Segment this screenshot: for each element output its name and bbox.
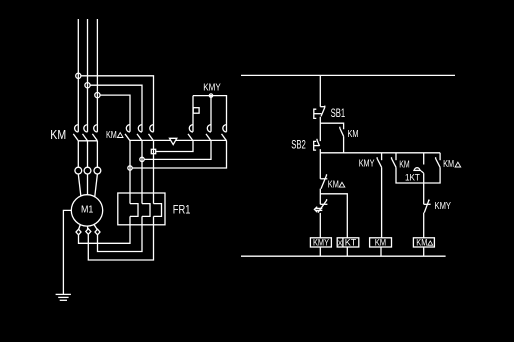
svg-text:KM: KM [106,130,117,141]
coil KM box [370,238,392,247]
contact KMdelta (NO) [436,157,441,167]
ground wire [63,210,71,294]
wire subrail to KMdelta contact [439,153,441,160]
thermal relay FR1 box [118,193,165,225]
motor terminal circle V1 [84,167,91,174]
contactor KMdelta pole 2 [137,125,142,141]
contactor KMdelta pole 1 [125,125,130,141]
contactor KM pole 3 [92,125,97,141]
coil KMdelta box [413,238,434,247]
wire KMdelta NC to KT branch node [319,189,321,205]
contact KMdelta interlock (NC) [320,174,327,189]
wire subrail to 1KT contact [423,153,425,165]
label KMdelta NO [443,159,461,170]
motor terminal circle W1 [94,167,101,174]
terminal diamond V2 [86,229,91,235]
contactor KMY pole 2 [206,125,211,141]
wire KM coil to rail [380,247,382,256]
wire motor to terminal V2 [87,226,89,229]
wire branch to KM aux [320,123,343,129]
wire motor to terminal W2 [94,225,97,230]
contact KMY (NO) [377,157,382,167]
node circle on line A [128,166,132,170]
coil KT box [337,238,359,247]
contactor KM pole 2 [83,125,88,141]
FR1 line A through heater [130,168,138,216]
wire rail to SB1 [319,75,321,106]
label KMdelta power [106,130,123,141]
contact KMY interlock (NC) [424,200,431,212]
delta marker triangle [170,138,177,144]
wire KMY pole1 to node C [156,141,193,152]
pushbutton SB1 (NC) [314,106,325,119]
node L1 branch junction [76,73,81,78]
wire L1 branch to delta column [81,76,154,132]
wire KMY pole3 to node A [132,141,226,168]
wire phase L1 [77,19,79,132]
wire subrail to KM contact [395,153,397,160]
wire subrail to KMY contact [381,153,383,160]
svg-text:KMY: KMY [359,158,375,170]
label KMdelta NC [328,179,345,190]
wire L2 branch to delta column [90,85,142,132]
wire branch to KT coil [320,194,347,238]
wire phase L3 [96,19,98,132]
pushbutton SB2 (NO) [314,139,320,150]
wire phase L2 [87,19,89,132]
wire KMdelta pole1 down to node [129,141,131,168]
wire KMdelta pole2 down to node [141,141,143,160]
svg-text:X: X [338,238,343,247]
wire U1 to motor [78,174,81,196]
coil KMY box [310,238,331,247]
control bottom rail [241,255,446,257]
contactor KMY pole 3 [222,125,227,141]
wire U2 to FR1 line A [79,216,131,243]
KMY latch square [193,108,199,114]
svg-text:KMY: KMY [203,82,221,93]
FR1 line B through heater [142,159,150,216]
control subrail [320,152,440,154]
motor M1 circle [71,195,102,226]
svg-text:SB1: SB1 [331,108,346,120]
contact KM self-hold (NO) [340,127,344,137]
wire KMY NC to KMdelta coil [423,213,425,238]
wire KMY contact to KM coil [381,167,383,238]
wire KM pole1 to motor terminal [77,141,79,167]
wire KT coil to rail [346,247,348,256]
wire KM aux to subrail [343,136,345,153]
linkage bar KMdelta-KMY [130,139,227,141]
wire KM contact to junction [396,167,424,183]
wire L3 branch to delta column [100,95,130,132]
svg-text:1KT: 1KT [405,172,420,183]
node L3 branch junction [95,93,100,98]
svg-text:KMY: KMY [313,237,330,248]
contact KT time-delayed (NC) [314,199,327,213]
wire KMdelta coil to rail [423,247,425,256]
wire V1 to motor [87,174,89,195]
svg-text:KM: KM [416,237,427,248]
wire KMY pole2 to node B [144,141,211,160]
ground [56,294,71,300]
svg-text:KM: KM [375,237,387,248]
wire to KMY coil [319,213,321,238]
node circle on line B [140,157,144,161]
node L2 branch junction [85,83,90,88]
contactor KM pole 1 [73,125,78,141]
label coil KMdelta [416,237,433,248]
wire SB2 down through subrail junction [319,149,321,179]
wire KM pole3 to motor terminal [96,141,98,167]
svg-text:KM: KM [50,128,66,142]
contact KM (NO) [392,157,397,167]
contactor KMY pole 1 [188,125,193,141]
svg-text:KM: KM [348,128,359,140]
control top rail [241,74,455,76]
KM linkage bar [78,140,97,142]
wire motor to terminal U2 [79,225,81,230]
wire 1KT contact to junction [423,173,425,204]
terminal diamond W2 [95,229,100,235]
contactor KMdelta pole 3 [149,125,154,141]
svg-text:FR1: FR1 [173,203,191,217]
wire KMdelta contact to junction [424,167,440,183]
label coil KT [338,237,357,248]
wire W2 to FR1 line B [98,216,143,251]
wire V2 to FR1 line C [88,216,153,260]
wire KM pole2 to motor terminal [87,141,89,167]
node dot on star wire [209,94,212,97]
svg-text:M1: M1 [81,203,94,215]
wire W1 to motor [95,174,98,196]
contact 1KT time-delayed (NO) [413,168,424,174]
node square on line C [151,149,155,153]
wire SB1 to SB2 [319,117,321,141]
svg-text:KM: KM [328,179,339,190]
wire KMdelta pole3 down to node [153,141,155,152]
motor terminal circle U1 [75,167,82,174]
wire KMY coil to rail [319,247,321,256]
svg-text:KM: KM [399,159,409,170]
terminal diamond U2 [76,229,81,235]
KMY star point wire [193,96,227,132]
svg-text:KMY: KMY [435,201,452,212]
FR1 line C through heater [154,152,162,217]
svg-text:KT: KT [345,237,357,248]
svg-text:KM: KM [443,159,454,170]
svg-text:SB2: SB2 [291,139,306,151]
